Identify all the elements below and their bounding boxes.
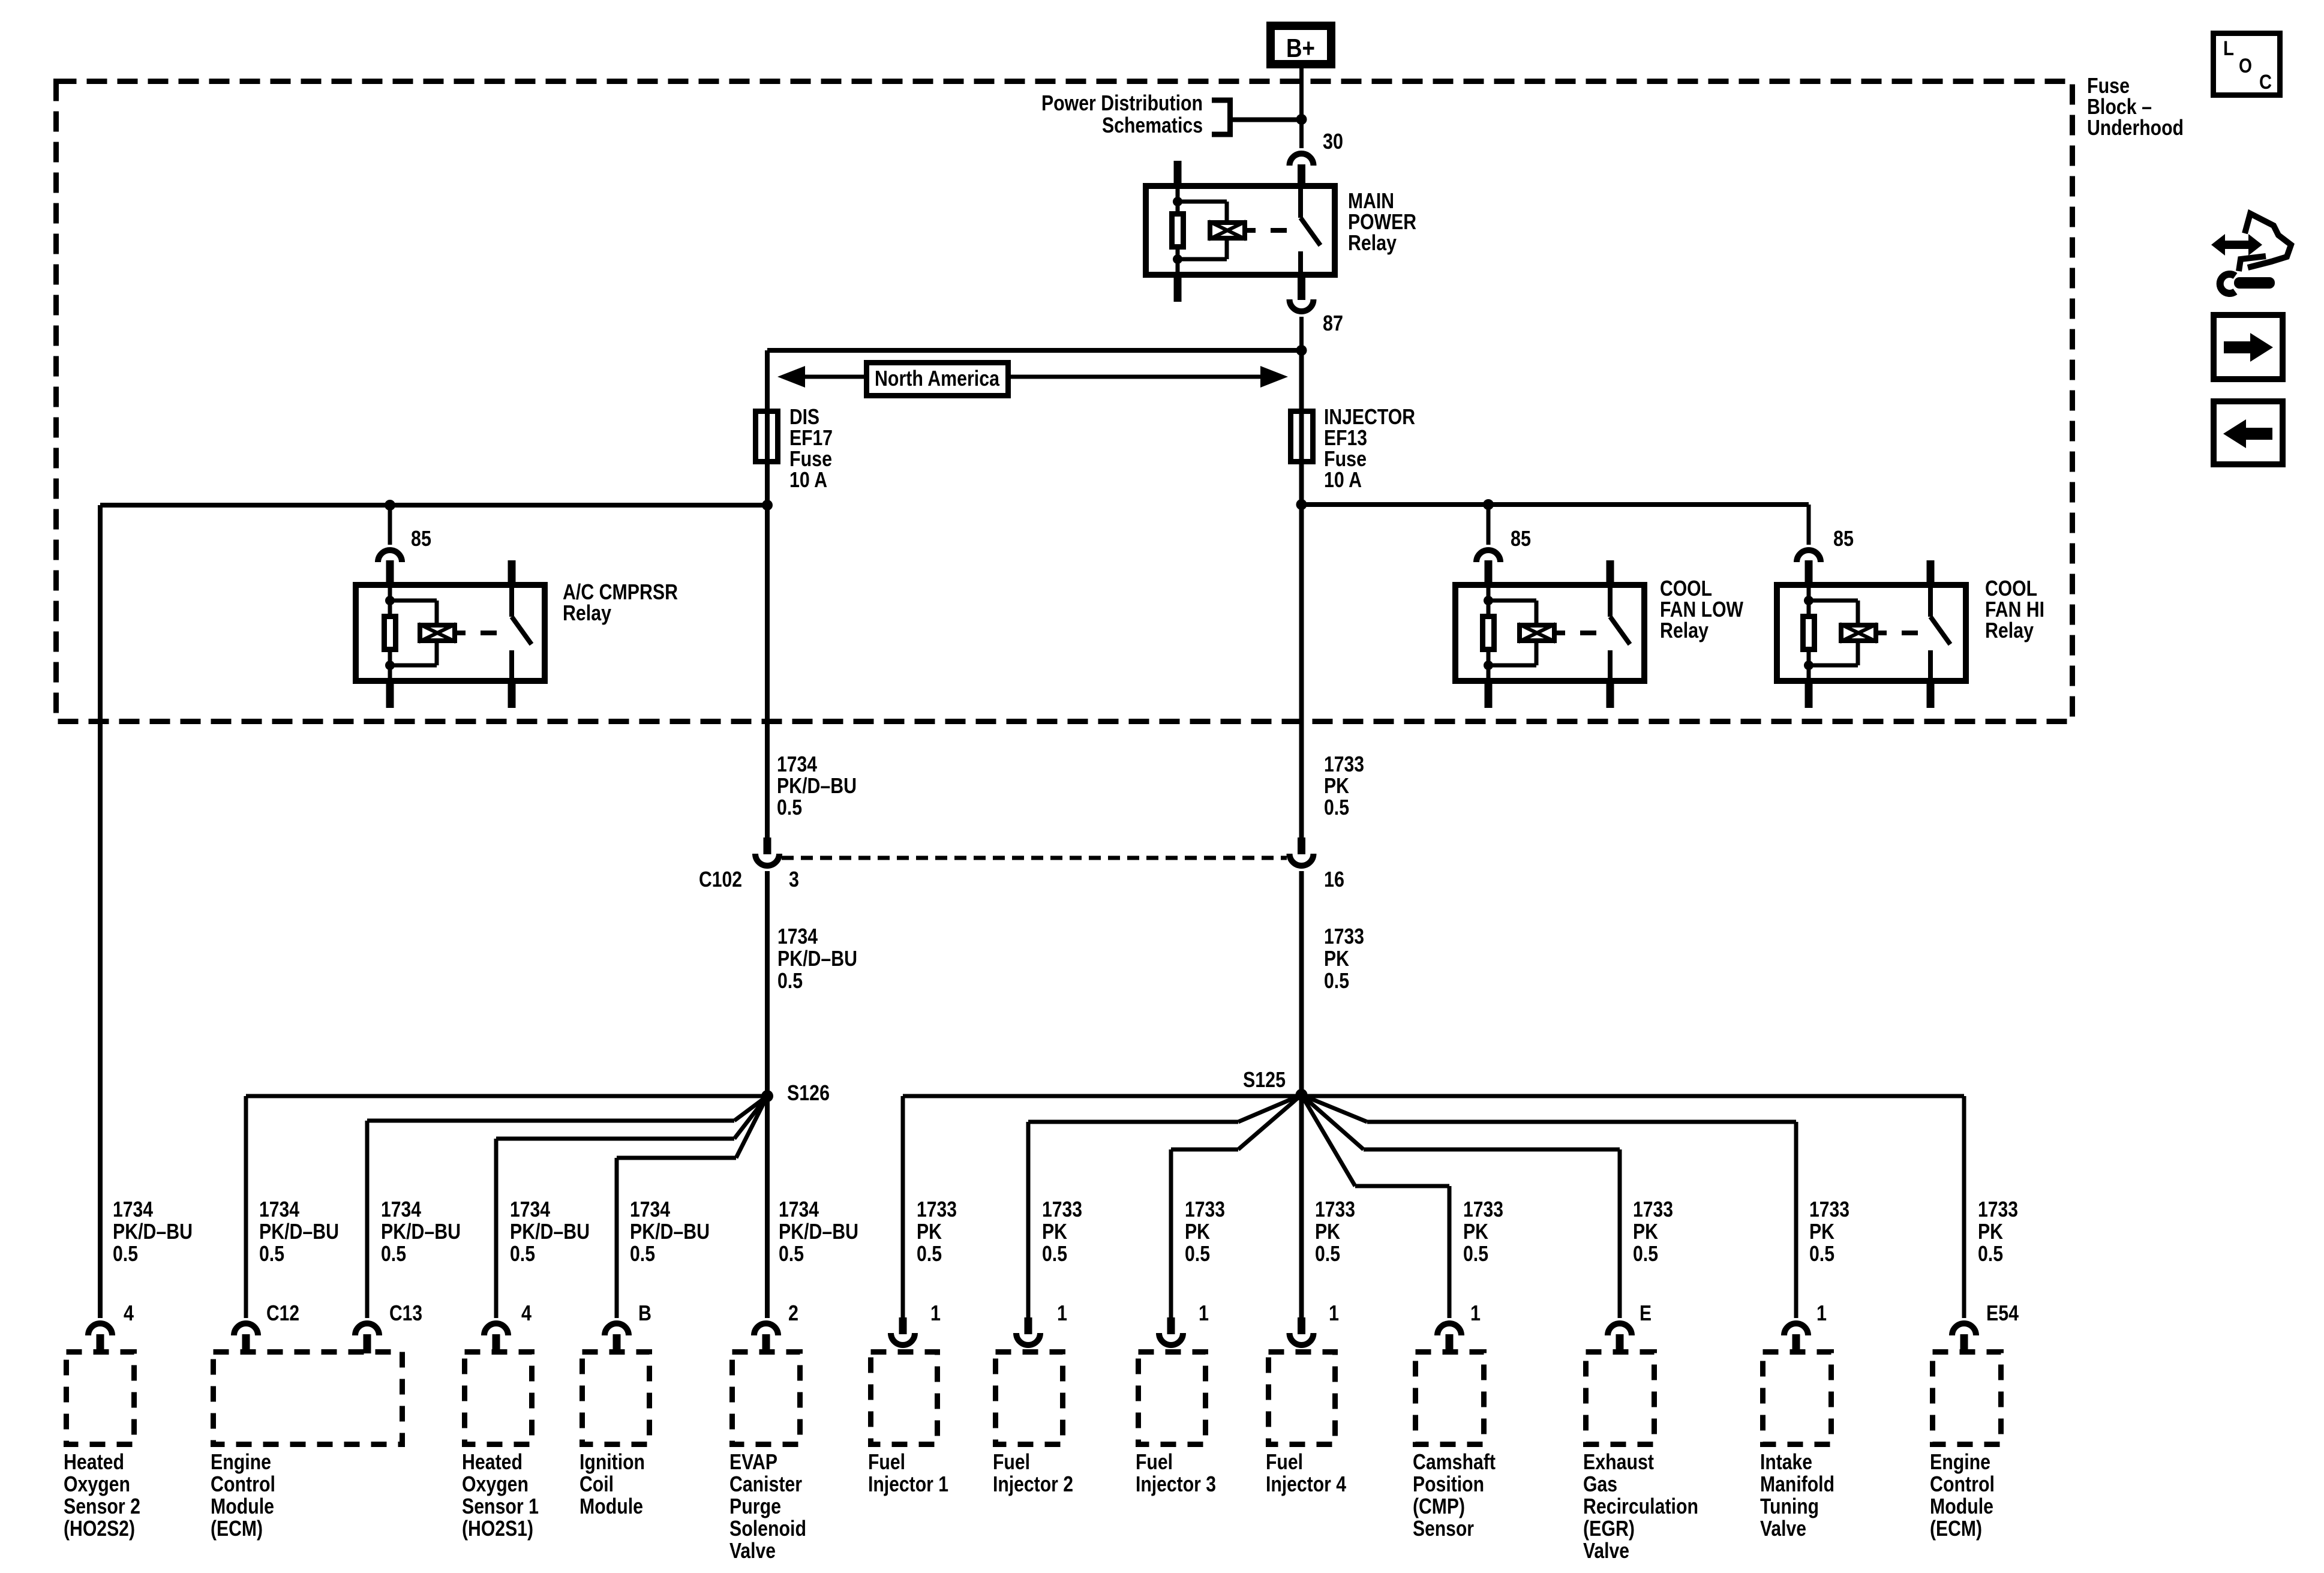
svg-text:Heated: Heated: [64, 1449, 124, 1474]
svg-text:0.5: 0.5: [777, 968, 803, 993]
svg-text:Valve: Valve: [1760, 1516, 1806, 1541]
svg-text:Canister: Canister: [729, 1472, 802, 1496]
svg-text:Gas: Gas: [1583, 1472, 1617, 1496]
svg-text:PK/D–BU: PK/D–BU: [777, 773, 857, 798]
svg-text:C12: C12: [266, 1301, 299, 1325]
svg-text:Fuel: Fuel: [1136, 1449, 1173, 1474]
svg-text:1733: 1733: [1042, 1197, 1082, 1221]
svg-text:1: 1: [1470, 1301, 1481, 1325]
svg-text:Purge: Purge: [729, 1494, 781, 1518]
svg-text:North America: North America: [875, 366, 1000, 391]
svg-text:Relay: Relay: [1985, 618, 2034, 643]
svg-text:PK/D–BU: PK/D–BU: [779, 1219, 858, 1244]
svg-text:PK: PK: [1463, 1219, 1488, 1244]
svg-text:Oxygen: Oxygen: [462, 1472, 529, 1496]
svg-text:Fuel: Fuel: [993, 1449, 1030, 1474]
svg-text:1: 1: [1816, 1301, 1827, 1325]
svg-text:10 A: 10 A: [789, 467, 827, 492]
svg-text:1733: 1733: [1809, 1197, 1849, 1221]
svg-text:Relay: Relay: [563, 601, 611, 625]
svg-text:Engine: Engine: [211, 1449, 271, 1474]
svg-text:0.5: 0.5: [259, 1241, 284, 1266]
svg-text:1733: 1733: [1463, 1197, 1503, 1221]
svg-text:10 A: 10 A: [1324, 467, 1362, 492]
svg-text:PK: PK: [1978, 1219, 2003, 1244]
svg-text:PK: PK: [1324, 946, 1349, 971]
svg-text:(HO2S1): (HO2S1): [462, 1516, 533, 1541]
svg-text:Manifold: Manifold: [1760, 1472, 1834, 1496]
svg-text:0.5: 0.5: [1315, 1241, 1340, 1266]
svg-text:1733: 1733: [1633, 1197, 1673, 1221]
svg-text:S125: S125: [1243, 1067, 1286, 1092]
svg-text:PK/D–BU: PK/D–BU: [630, 1219, 710, 1244]
svg-text:Oxygen: Oxygen: [64, 1472, 130, 1496]
svg-text:85: 85: [1511, 526, 1531, 551]
svg-text:3: 3: [789, 867, 799, 891]
svg-text:Camshaft: Camshaft: [1413, 1449, 1496, 1474]
svg-text:Intake: Intake: [1760, 1449, 1812, 1474]
svg-text:Fuel: Fuel: [1266, 1449, 1303, 1474]
svg-text:C13: C13: [389, 1301, 422, 1325]
svg-text:Ignition: Ignition: [580, 1449, 645, 1474]
svg-text:PK: PK: [917, 1219, 942, 1244]
svg-text:0.5: 0.5: [510, 1241, 535, 1266]
svg-text:1: 1: [1329, 1301, 1339, 1325]
svg-text:0.5: 0.5: [777, 795, 802, 819]
svg-text:Relay: Relay: [1348, 230, 1397, 255]
svg-text:0.5: 0.5: [1185, 1241, 1210, 1266]
svg-text:PK: PK: [1633, 1219, 1658, 1244]
svg-text:PK/D–BU: PK/D–BU: [510, 1219, 590, 1244]
svg-text:4: 4: [521, 1301, 532, 1325]
svg-text:1733: 1733: [917, 1197, 957, 1221]
svg-text:0.5: 0.5: [1633, 1241, 1658, 1266]
svg-text:0.5: 0.5: [381, 1241, 406, 1266]
svg-text:(ECM): (ECM): [211, 1516, 263, 1541]
svg-text:85: 85: [1833, 526, 1854, 551]
svg-text:S126: S126: [787, 1080, 830, 1105]
svg-text:1733: 1733: [1324, 752, 1364, 776]
svg-text:1734: 1734: [777, 924, 818, 948]
svg-text:EVAP: EVAP: [729, 1449, 777, 1474]
svg-text:1733: 1733: [1185, 1197, 1225, 1221]
svg-text:0.5: 0.5: [1324, 968, 1349, 993]
svg-text:1734: 1734: [777, 752, 817, 776]
svg-text:Control: Control: [211, 1472, 275, 1496]
svg-text:1734: 1734: [259, 1197, 299, 1221]
svg-text:Solenoid: Solenoid: [729, 1516, 806, 1541]
svg-text:1733: 1733: [1978, 1197, 2018, 1221]
svg-text:1: 1: [930, 1301, 941, 1325]
svg-text:Control: Control: [1930, 1472, 1995, 1496]
svg-text:1734: 1734: [510, 1197, 550, 1221]
svg-text:B: B: [638, 1301, 651, 1325]
svg-text:85: 85: [411, 526, 431, 551]
svg-text:0.5: 0.5: [917, 1241, 942, 1266]
svg-text:0.5: 0.5: [1809, 1241, 1834, 1266]
svg-text:0.5: 0.5: [630, 1241, 655, 1266]
svg-text:Tuning: Tuning: [1760, 1494, 1819, 1518]
svg-text:1: 1: [1199, 1301, 1209, 1325]
svg-text:Injector 2: Injector 2: [993, 1472, 1073, 1496]
svg-text:1733: 1733: [1324, 924, 1364, 948]
svg-text:Module: Module: [1930, 1494, 1993, 1518]
svg-text:Schematics: Schematics: [1102, 113, 1203, 137]
svg-text:C102: C102: [699, 867, 742, 891]
svg-text:4: 4: [124, 1301, 134, 1325]
svg-text:E54: E54: [1986, 1301, 2019, 1325]
svg-text:O: O: [2239, 55, 2252, 77]
svg-text:Valve: Valve: [729, 1538, 776, 1563]
svg-text:(ECM): (ECM): [1930, 1516, 1982, 1541]
svg-text:1: 1: [1057, 1301, 1067, 1325]
svg-text:Recirculation: Recirculation: [1583, 1494, 1698, 1518]
svg-text:Underhood: Underhood: [2087, 115, 2184, 140]
svg-text:Relay: Relay: [1660, 618, 1709, 643]
svg-text:Module: Module: [211, 1494, 274, 1518]
svg-text:1734: 1734: [630, 1197, 670, 1221]
svg-text:Injector 1: Injector 1: [868, 1472, 948, 1496]
svg-text:Sensor: Sensor: [1413, 1516, 1474, 1541]
svg-text:PK/D–BU: PK/D–BU: [113, 1219, 193, 1244]
svg-text:Module: Module: [580, 1494, 643, 1518]
svg-text:Fuel: Fuel: [868, 1449, 905, 1474]
svg-text:87: 87: [1323, 311, 1343, 335]
svg-text:PK/D–BU: PK/D–BU: [259, 1219, 339, 1244]
svg-text:30: 30: [1323, 129, 1343, 154]
svg-text:C: C: [2259, 71, 2272, 94]
svg-text:Power Distribution: Power Distribution: [1041, 91, 1203, 115]
svg-text:Sensor 2: Sensor 2: [64, 1494, 140, 1518]
svg-text:Heated: Heated: [462, 1449, 523, 1474]
svg-text:L: L: [2223, 37, 2234, 60]
svg-text:1734: 1734: [779, 1197, 819, 1221]
svg-text:0.5: 0.5: [779, 1241, 804, 1266]
svg-text:Coil: Coil: [580, 1472, 614, 1496]
svg-text:PK: PK: [1185, 1219, 1210, 1244]
svg-text:0.5: 0.5: [1042, 1241, 1067, 1266]
svg-text:0.5: 0.5: [113, 1241, 138, 1266]
svg-text:(EGR): (EGR): [1583, 1516, 1635, 1541]
svg-text:B+: B+: [1286, 34, 1315, 63]
svg-text:Sensor 1: Sensor 1: [462, 1494, 539, 1518]
svg-text:2: 2: [788, 1301, 798, 1325]
svg-text:0.5: 0.5: [1463, 1241, 1488, 1266]
svg-text:(CMP): (CMP): [1413, 1494, 1465, 1518]
svg-text:PK: PK: [1324, 773, 1349, 798]
svg-text:Engine: Engine: [1930, 1449, 1990, 1474]
svg-text:Exhaust: Exhaust: [1583, 1449, 1654, 1474]
svg-text:Position: Position: [1413, 1472, 1484, 1496]
svg-text:1734: 1734: [381, 1197, 421, 1221]
svg-text:0.5: 0.5: [1978, 1241, 2003, 1266]
svg-text:Valve: Valve: [1583, 1538, 1629, 1563]
svg-text:E: E: [1640, 1301, 1652, 1325]
svg-text:Injector 4: Injector 4: [1266, 1472, 1346, 1496]
svg-text:PK: PK: [1809, 1219, 1834, 1244]
svg-text:PK: PK: [1315, 1219, 1340, 1244]
svg-text:0.5: 0.5: [1324, 795, 1349, 819]
svg-text:1733: 1733: [1315, 1197, 1355, 1221]
svg-text:(HO2S2): (HO2S2): [64, 1516, 135, 1541]
svg-text:PK: PK: [1042, 1219, 1067, 1244]
svg-text:PK/D–BU: PK/D–BU: [381, 1219, 461, 1244]
svg-text:Injector 3: Injector 3: [1136, 1472, 1216, 1496]
svg-text:16: 16: [1324, 867, 1344, 891]
svg-text:PK/D–BU: PK/D–BU: [777, 946, 857, 971]
svg-text:1734: 1734: [113, 1197, 153, 1221]
